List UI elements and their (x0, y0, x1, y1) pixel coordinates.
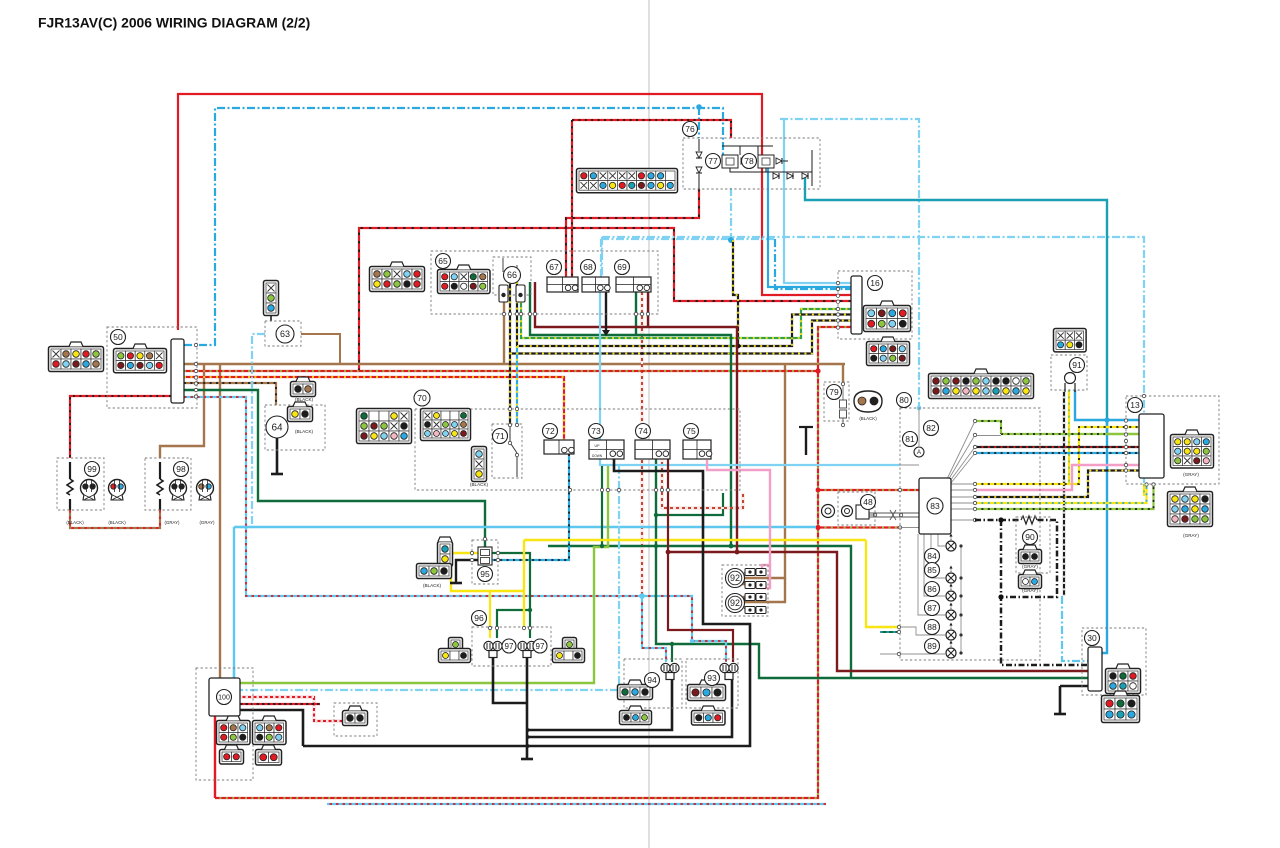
wire red main feed (178, 94, 851, 330)
svg-text:84: 84 (927, 551, 937, 561)
svg-text:86: 86 (927, 584, 937, 594)
harness node 16 (851, 276, 862, 334)
wire light-blue dash-dot top right (780, 119, 919, 237)
wire green dash bundle to 13 (975, 485, 1154, 510)
label 74 (636, 424, 651, 439)
svg-text:87: 87 (927, 603, 937, 613)
svg-text:100: 100 (218, 695, 230, 702)
wire gray fan 83 right (951, 483, 975, 485)
junction circles at 50 (194, 343, 197, 346)
spark cap 98a (170, 480, 187, 501)
connector 93 b (692, 706, 726, 725)
connector 64 inner (BLACK) (288, 402, 313, 422)
label 66 (504, 267, 521, 284)
wire blue vertical to 30 (1102, 420, 1107, 653)
label 100 (217, 690, 232, 705)
connector 70 a (357, 409, 412, 444)
svg-text:97: 97 (505, 642, 514, 651)
svg-text:97: 97 (536, 642, 545, 651)
svg-text:77: 77 (708, 156, 718, 166)
label A (914, 447, 924, 457)
label 92b (726, 594, 745, 613)
svg-text:(GRAY): (GRAY) (1183, 533, 1199, 538)
connector above 91 (1054, 329, 1087, 352)
box single connector (334, 703, 377, 736)
connector 71 (BLACK) (472, 447, 487, 482)
wire yellow/blue bundle to 13 (975, 485, 1147, 504)
label 67 (547, 260, 562, 275)
bulb meter (946, 623, 956, 641)
label 93 (705, 671, 720, 686)
label 76 (683, 122, 698, 137)
sensors 48 (822, 505, 835, 518)
box 76 (683, 138, 820, 189)
wire black ground 30 (1059, 686, 1062, 713)
wire sky solid relay68 to 83 (600, 292, 900, 465)
label 97a (502, 639, 516, 653)
ground lamps (521, 758, 533, 761)
svg-text:74: 74 (638, 426, 648, 436)
wire bulb return line (960, 546, 962, 653)
box 79 (824, 382, 849, 421)
svg-text:76: 76 (685, 124, 695, 134)
svg-text:64: 64 (271, 423, 283, 434)
connector 64 outer (BLACK) (291, 377, 316, 397)
connector 13 GRAY a (1171, 430, 1214, 468)
connector 30 b (1102, 691, 1140, 723)
fuse 79 interior (842, 385, 844, 424)
diodes box 76 (696, 152, 702, 158)
svg-text:48: 48 (863, 497, 873, 507)
ECU 83 (919, 478, 951, 534)
label 77 (706, 154, 721, 169)
wire black/yellow (517, 282, 851, 346)
label 70 (414, 390, 430, 406)
label 72 (543, 424, 558, 439)
wire cyan/red dashed (184, 397, 692, 641)
label 80 (897, 393, 912, 408)
wire red/green dashed long (184, 371, 818, 798)
box 48 (838, 492, 875, 525)
wire blue/black relay 72 to 95 (492, 454, 569, 560)
box 93 (686, 659, 738, 708)
wire dark green relay73 to bulb (601, 466, 603, 546)
svg-text:A: A (917, 450, 921, 456)
label 84 (925, 549, 940, 564)
label 95 (478, 567, 493, 582)
wire black/yellow from 76 staircase (733, 240, 738, 346)
svg-text:98: 98 (176, 464, 186, 474)
harness node 50 (171, 339, 184, 403)
page divider line (648, 0, 650, 848)
wire red/black into connector 16 (359, 228, 851, 371)
harness node 13 (1139, 414, 1164, 478)
wire black lamp bus (526, 658, 529, 758)
svg-text:(BLACK): (BLACK) (66, 520, 84, 525)
wire 64 ground (276, 437, 279, 473)
bulb 94 (661, 663, 679, 679)
svg-text:(GRAY): (GRAY) (1022, 564, 1038, 569)
label 98 (174, 462, 189, 477)
wire red/black verticals to relay 67 (571, 120, 573, 277)
box 92 (722, 565, 768, 616)
wire black resistor stems 98 99 (70, 396, 171, 458)
bulb meter (946, 584, 956, 602)
svg-text:(BLACK): (BLACK) (295, 429, 314, 434)
svg-text:67: 67 (549, 262, 559, 272)
connector above 63 (264, 281, 279, 316)
svg-text:DOWN: DOWN (592, 454, 603, 458)
relay 72 (544, 440, 574, 454)
svg-text:82: 82 (926, 423, 936, 433)
svg-text:85: 85 (927, 565, 937, 575)
svg-text:65: 65 (438, 256, 448, 266)
svg-text:93: 93 (707, 673, 717, 683)
bulb meter (946, 641, 956, 659)
relay 77 (722, 155, 738, 168)
wire green relay95 to bulb (492, 553, 530, 638)
box 99 (57, 458, 104, 510)
box 50 (107, 327, 197, 408)
wires inside box 76 (698, 139, 700, 189)
connector 96 left (449, 638, 463, 652)
svg-text:UP: UP (595, 444, 601, 448)
label 97b (533, 639, 547, 653)
svg-text:89: 89 (927, 641, 937, 651)
wire blue solid into 16 (768, 168, 851, 287)
label 73 (589, 424, 604, 439)
box 95 (472, 540, 498, 584)
bullet connectors 92 (745, 569, 755, 576)
wire 63 connector stub (270, 314, 272, 321)
relay 67 (547, 277, 578, 292)
svg-text:83: 83 (930, 501, 940, 511)
switch 71 (510, 427, 517, 477)
wire light-blue dash relay73 to 100 (240, 466, 619, 690)
label 88 (925, 620, 940, 635)
links 92 to bullets (744, 571, 747, 610)
svg-text:13: 13 (1130, 400, 1140, 410)
fuse strip (577, 169, 678, 193)
label 71 (493, 429, 508, 444)
box 96 (472, 627, 551, 666)
connector 100 b (253, 716, 287, 745)
label 94 (645, 673, 660, 688)
svg-text:92: 92 (730, 598, 740, 608)
connector 93 a (688, 680, 726, 701)
relay 74 (635, 440, 670, 459)
wire blue from 91 to 13 (1075, 390, 1139, 420)
bulb 97 b (518, 641, 536, 657)
label 81 (903, 432, 918, 447)
svg-text:71: 71 (495, 431, 505, 441)
label 83 (927, 498, 943, 514)
wire black 48 link (868, 514, 875, 516)
box 65 (431, 251, 658, 314)
svg-text:90: 90 (1025, 532, 1035, 542)
wire blue/black bundle to 13 (975, 452, 1139, 454)
connector 100 a (217, 716, 251, 745)
label 85 (925, 563, 940, 578)
long connector meter (929, 369, 1034, 399)
wire cyan into 100 (233, 668, 235, 678)
label 86 (925, 582, 940, 597)
svg-text:(GRAY): (GRAY) (1022, 588, 1038, 593)
box meter assembly (900, 408, 1040, 660)
svg-text:69: 69 (617, 262, 627, 272)
svg-text:30: 30 (1087, 633, 1097, 643)
relay 73 (589, 440, 624, 459)
wire black relay73 big run (303, 459, 750, 746)
spark cap 98b (197, 480, 214, 501)
label 91 (1070, 358, 1085, 373)
svg-text:96: 96 (474, 613, 484, 623)
label 87 (925, 601, 940, 616)
svg-text:88: 88 (927, 622, 937, 632)
wire black/red bundle to 13 (975, 446, 1139, 448)
wire dark green into relay 95 (484, 547, 486, 549)
wire blue dash-dot main (184, 108, 723, 345)
bulb meter (946, 603, 956, 621)
wire black ground mid (805, 426, 807, 455)
label 75 (684, 424, 699, 439)
wire black relay95 ground (456, 560, 478, 582)
node 100 (209, 678, 240, 716)
wire dark green fuse to 30 (530, 282, 731, 546)
plugs 66 (499, 285, 508, 302)
label 78 (742, 154, 757, 169)
label 90 (1023, 530, 1038, 545)
connector 90 a GRAY (1019, 545, 1042, 564)
wire pink bundle to 13 (975, 465, 1139, 490)
svg-text:50: 50 (113, 332, 123, 342)
svg-text:92: 92 (730, 573, 740, 583)
box 70 (415, 409, 740, 490)
wire yellow/green 91 (1068, 390, 1070, 484)
connector 100 d (256, 745, 282, 765)
svg-text:(BLACK): (BLACK) (423, 583, 442, 588)
connector 65 right (438, 265, 491, 294)
svg-text:63: 63 (280, 329, 290, 339)
wire cyan branch (233, 527, 235, 678)
wire yellow-black from 91 (1063, 390, 1065, 596)
box 94 (624, 659, 682, 708)
label 68 (581, 260, 596, 275)
wire gray twisted pair 48 (868, 512, 919, 514)
wire pink relay75 (707, 460, 770, 571)
wire black relay68 ground arrow (605, 292, 607, 330)
wire yellow tail to meter (866, 540, 897, 627)
connector 94 a (618, 680, 653, 700)
connector 13 GRAY b (1168, 487, 1213, 527)
wire light blue dash-dot from 76 (730, 188, 732, 240)
bulb meter (946, 534, 956, 552)
wire red stub 100 (214, 716, 216, 798)
svg-text:78: 78 (744, 156, 754, 166)
wire brown/red dashed bottom of 98/99 (70, 510, 160, 528)
svg-text:(BLACK): (BLACK) (295, 397, 314, 402)
svg-text:16: 16 (870, 278, 880, 288)
svg-text:(BLACK): (BLACK) (859, 416, 877, 421)
svg-text:(GRAY): (GRAY) (1183, 472, 1199, 477)
relay 78 (758, 155, 774, 168)
box 90 (1016, 517, 1050, 573)
wire yellow bundle to 13 (975, 427, 1139, 484)
box 64 (265, 405, 325, 450)
box 16 (838, 271, 912, 339)
svg-text:75: 75 (686, 426, 696, 436)
svg-text:70: 70 (417, 393, 427, 403)
label 50 (111, 330, 126, 345)
connector single 2pin (343, 706, 368, 726)
label 82 (924, 421, 939, 436)
svg-text:66: 66 (507, 270, 517, 280)
svg-text:80: 80 (899, 395, 909, 405)
svg-text:FJR13AV(C) 2006 WIRING DIAGRAM: FJR13AV(C) 2006 WIRING DIAGRAM (2/2) (38, 15, 310, 31)
relay 75 (683, 440, 712, 459)
wire light blue into 16 (784, 119, 851, 283)
box 63 (265, 321, 301, 346)
svg-text:79: 79 (829, 387, 839, 397)
label 69 (615, 260, 630, 275)
connector inside 50 (114, 344, 167, 373)
relay 68 (582, 277, 610, 292)
connector 30 a (1106, 664, 1141, 694)
relay 95 symbol (478, 547, 492, 565)
label 79 (827, 385, 842, 400)
wire gray fan 83 top (947, 421, 975, 479)
label 64 (266, 416, 288, 438)
wire teal long run (805, 176, 1107, 434)
spark cap 99a (81, 480, 98, 501)
box 71 (492, 424, 522, 478)
wire green/yellow from 66 plug (521, 301, 851, 338)
svg-text:(GRAY): (GRAY) (164, 520, 180, 525)
box 91 (1051, 355, 1087, 390)
plug 79 oval (BLACK) (854, 391, 882, 412)
svg-text:95: 95 (480, 569, 490, 579)
wire green to 13 (1001, 433, 1105, 435)
wire dark green from 50 to relay 95 (184, 390, 485, 548)
label 96 (472, 611, 487, 626)
wire gray feeds bulbs (938, 534, 945, 546)
node 30 (1088, 647, 1102, 691)
connector 16 a (864, 301, 911, 332)
box 66 (493, 257, 531, 295)
key switch 91 (1065, 373, 1076, 393)
coil symbol 90 (1021, 515, 1037, 525)
label 99 (85, 462, 100, 477)
connector 95 (BLACK) (438, 537, 453, 567)
wire red/yellow to relay 72 (184, 377, 564, 440)
svg-text:68: 68 (583, 262, 593, 272)
label 89 (925, 639, 940, 654)
svg-text:81: 81 (905, 434, 915, 444)
wire black/yellow bundle to 13 (975, 471, 1139, 498)
box 98 (145, 458, 191, 510)
wire black dash-dot around 90 (975, 520, 1057, 597)
junction circles into 16 (836, 281, 839, 284)
label 16 (868, 276, 883, 291)
wire green/blue stub (880, 631, 897, 633)
connector left of 50 (49, 342, 104, 372)
connector 70 b (421, 409, 471, 441)
wire light-blue dash-dot from 63 (234, 334, 265, 527)
label 30 (1085, 631, 1100, 646)
svg-text:(GRAY): (GRAY) (199, 520, 215, 525)
connector 65 left (370, 262, 425, 292)
svg-text:91: 91 (1072, 360, 1082, 370)
wire black into 16 (509, 282, 511, 427)
label 48 (861, 495, 876, 510)
wire brown bus (184, 363, 845, 365)
spark cap 99b (109, 480, 126, 501)
bulb 97 a (484, 641, 502, 657)
relay 69 (616, 277, 651, 292)
wire feeds bulbs 94 93 (671, 644, 673, 662)
wire apple green relay73 down to 100 (240, 466, 608, 683)
svg-text:(BLACK): (BLACK) (470, 482, 489, 487)
connector 94 b (620, 706, 652, 725)
junction circles misc (634, 312, 637, 315)
box 30 (1082, 628, 1146, 695)
bulb 93 (720, 663, 738, 679)
box 100 (196, 668, 253, 780)
label 65 (436, 254, 451, 269)
wire brown/black to 64 (184, 383, 276, 405)
wire yellow main (451, 553, 524, 591)
label 13 (1128, 398, 1143, 413)
connector 96 right (563, 638, 577, 652)
svg-text:94: 94 (647, 675, 657, 685)
connector 16 b (867, 337, 910, 366)
connector 100 c (220, 745, 244, 764)
svg-text:72: 72 (545, 426, 555, 436)
label 92a (726, 569, 745, 588)
svg-text:73: 73 (591, 426, 601, 436)
label 63 (276, 325, 294, 343)
connector 90 b GRAY (1019, 570, 1042, 589)
box 13 (1126, 396, 1219, 484)
svg-text:(BLACK): (BLACK) (108, 520, 126, 525)
wire red dotted from 100 (240, 697, 343, 721)
wire maroon long (535, 282, 737, 552)
svg-text:99: 99 (87, 464, 97, 474)
bulb meter (946, 566, 956, 584)
